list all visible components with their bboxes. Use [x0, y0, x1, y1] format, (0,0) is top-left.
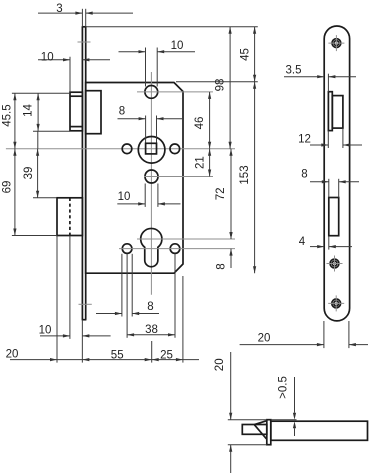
- svg-text:38: 38: [145, 324, 158, 336]
- middle screw hole symbol: [327, 256, 343, 272]
- faceplate screw hole tick top: [78, 41, 91, 43]
- plate top extension lines (side view): [228, 419, 267, 421]
- latch cutout lip: [328, 92, 332, 131]
- cylinder side hole right: [170, 244, 180, 254]
- dimension 8 (deadbolt cutout width): [301, 169, 359, 198]
- svg-text:69: 69: [1, 181, 13, 194]
- svg-text:21: 21: [195, 156, 207, 169]
- extension line deadbolt tip down: [56, 236, 58, 363]
- side fixing hole left: [122, 144, 132, 154]
- svg-text:98: 98: [214, 79, 226, 92]
- dimension 45.5 (left): [1, 93, 70, 149]
- dimension 46 (right): [194, 92, 211, 149]
- svg-text:45: 45: [239, 48, 251, 61]
- dimension 45 (right top): [239, 27, 256, 82]
- svg-text:45.5: 45.5: [1, 104, 13, 126]
- dimension 20 (faceplate width): [240, 321, 368, 348]
- extension line faceplate top to right dims: [86, 26, 258, 28]
- dimension 8 (follower square): [118, 106, 185, 143]
- svg-text:8: 8: [147, 301, 153, 313]
- svg-text:20: 20: [6, 349, 19, 361]
- main horizontal centerline (follower axis): [6, 148, 235, 150]
- dimension 10 (lower hole dia): [117, 184, 180, 207]
- deadbolt head: [57, 198, 82, 236]
- dimension 8 (cyl side hole dia): [96, 301, 159, 315]
- dimension 98 (right): [214, 27, 231, 149]
- dimension 10 (deadbolt throw): [39, 324, 111, 337]
- faceplate screw hole tick bottom: [79, 303, 92, 305]
- dimension 14 (latch height): [22, 93, 70, 149]
- svg-text:25: 25: [160, 349, 173, 361]
- extension lines below left cyl hole: [122, 254, 175, 338]
- extension line faceplate front down: [81, 320, 83, 363]
- svg-text:14: 14: [22, 104, 34, 117]
- top screw hole (Ø10): [145, 86, 158, 99]
- svg-text:3.5: 3.5: [286, 64, 302, 76]
- dimension 10 (latch protrusion): [38, 52, 110, 93]
- svg-text:10: 10: [39, 324, 52, 336]
- dimension 25: [152, 349, 199, 361]
- extension line case top to right dims: [176, 81, 258, 83]
- svg-text:8: 8: [119, 106, 125, 118]
- dimension 3.5 (right view): [284, 64, 356, 91]
- dimension 3 (faceplate thickness): [38, 3, 133, 27]
- svg-text:4: 4: [299, 236, 306, 248]
- svg-text:10: 10: [118, 191, 131, 203]
- svg-text:72: 72: [215, 188, 227, 201]
- dimension 55 (backset): [57, 349, 152, 361]
- extension line case right edge down: [182, 276, 184, 363]
- dimension 10 (top hole dia): [119, 40, 196, 87]
- cylinder side holes centerline: [119, 248, 235, 250]
- dimension 20 (deadbolt total): [6, 349, 57, 362]
- dimension 8 (cylinder to side holes): [216, 228, 233, 270]
- faceplate front outline (stadium): [324, 26, 349, 321]
- faceplate bar top view: [267, 420, 271, 445]
- vertical centerline (lock axis): [150, 72, 152, 295]
- top hole horizontal centerline: [137, 91, 213, 93]
- cylinder side hole left: [122, 244, 132, 254]
- svg-text:10: 10: [41, 52, 54, 64]
- lock case outline: [86, 83, 183, 274]
- deadbolt cutout: [329, 198, 339, 236]
- dimension 38 (cyl side holes spacing): [127, 324, 175, 337]
- svg-text:3: 3: [56, 3, 62, 15]
- faceplate edge view (front view left strip): [82, 27, 87, 320]
- lock body top view: [271, 421, 368, 440]
- svg-text:55: 55: [111, 349, 124, 361]
- dimension 39 (left): [23, 149, 57, 198]
- dimension >0.5 (plate proud of body): [278, 376, 297, 436]
- extension line deadbolt dashed face down: [69, 236, 71, 339]
- latch cutout: [332, 96, 343, 129]
- dimension 153 (right): [239, 82, 256, 273]
- svg-text:>0.5: >0.5: [278, 376, 290, 399]
- svg-text:153: 153: [239, 165, 251, 184]
- top screw hole symbol: [328, 35, 344, 51]
- latch bolt head: [70, 92, 82, 131]
- dimension 12 (latch cutout): [298, 128, 362, 148]
- follower U-hub circle: [138, 137, 165, 164]
- svg-text:39: 39: [23, 167, 35, 180]
- svg-text:20: 20: [258, 332, 271, 344]
- cylinder horizontal centerline: [137, 238, 235, 240]
- lower hole centerline: [144, 176, 213, 178]
- svg-text:8: 8: [301, 169, 307, 181]
- dimension 20 (side view plate height): [214, 352, 232, 473]
- svg-text:20: 20: [214, 358, 226, 371]
- latch top view: [242, 421, 266, 439]
- dimension 72 (right): [215, 149, 233, 239]
- latch bolt body inside case: [86, 91, 101, 134]
- svg-text:46: 46: [194, 117, 206, 130]
- plate bottom extension line (side view): [228, 444, 267, 446]
- dimension 69 (left): [1, 149, 57, 236]
- lower hole (Ø10): [145, 170, 158, 183]
- euro profile cylinder hole: [141, 228, 162, 266]
- dimension 21 (right): [195, 149, 212, 177]
- bottom screw hole symbol: [328, 295, 344, 311]
- side fixing hole right: [170, 144, 180, 154]
- dimension 4 (right view): [299, 236, 352, 250]
- extension line cylinder axis down: [151, 341, 153, 363]
- svg-text:10: 10: [171, 40, 184, 52]
- svg-text:12: 12: [298, 133, 311, 145]
- follower square spindle 8mm: [146, 143, 157, 154]
- svg-text:8: 8: [216, 263, 228, 269]
